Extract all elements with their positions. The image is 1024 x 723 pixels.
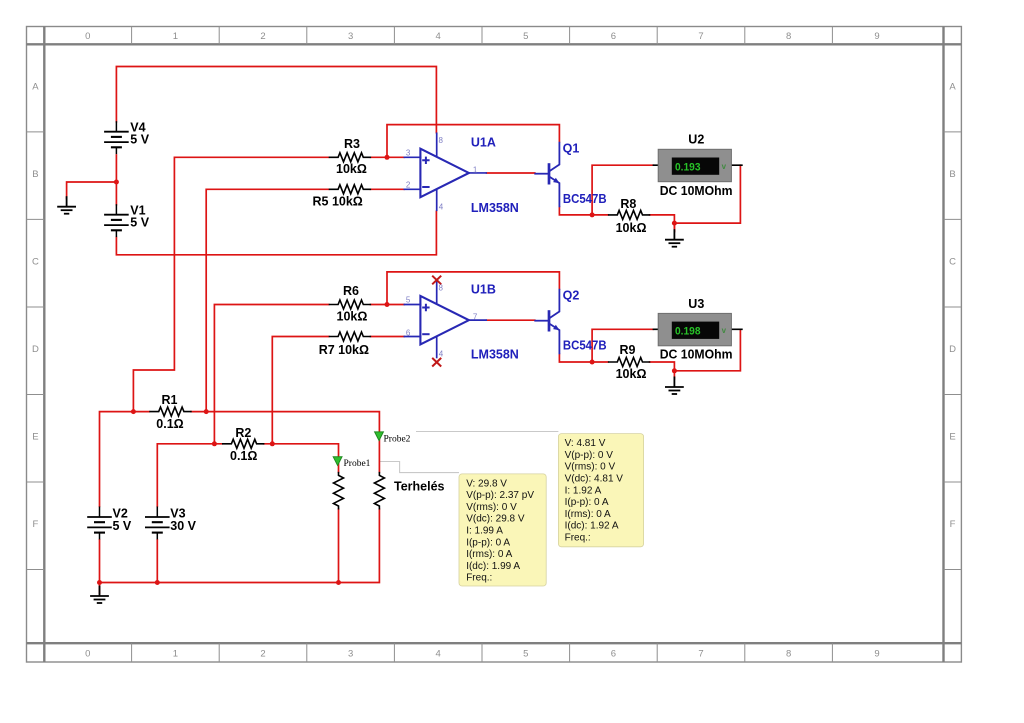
- svg-text:8: 8: [439, 136, 444, 145]
- svg-text:3: 3: [406, 148, 411, 157]
- svg-text:R7 10kΩ: R7 10kΩ: [319, 343, 369, 357]
- svg-text:I(dc): 1.99 A: I(dc): 1.99 A: [466, 561, 520, 572]
- svg-text:6: 6: [406, 328, 411, 337]
- svg-text:Freq.:: Freq.:: [466, 573, 492, 584]
- svg-text:R1: R1: [162, 393, 178, 407]
- svg-text:F: F: [32, 519, 38, 530]
- svg-text:E: E: [949, 432, 955, 443]
- svg-text:0.198: 0.198: [675, 325, 701, 337]
- svg-text:V(p-p): 0 V: V(p-p): 0 V: [565, 450, 614, 461]
- svg-text:0: 0: [85, 649, 90, 660]
- svg-text:U1B: U1B: [471, 282, 496, 296]
- svg-text:0: 0: [85, 31, 90, 42]
- svg-text:1: 1: [173, 649, 178, 660]
- svg-text:B: B: [949, 169, 955, 180]
- svg-text:V(rms): 0 V: V(rms): 0 V: [466, 502, 517, 513]
- svg-text:10kΩ: 10kΩ: [616, 367, 647, 381]
- svg-text:Q1: Q1: [563, 142, 580, 156]
- svg-text:U1A: U1A: [471, 135, 496, 149]
- svg-text:4: 4: [439, 203, 444, 212]
- svg-text:4: 4: [436, 31, 441, 42]
- svg-text:6: 6: [611, 649, 616, 660]
- svg-text:A: A: [32, 82, 39, 93]
- svg-text:I: 1.99 A: I: 1.99 A: [466, 526, 503, 537]
- svg-text:C: C: [32, 257, 39, 268]
- svg-text:5 V: 5 V: [130, 216, 149, 230]
- svg-text:0.1Ω: 0.1Ω: [156, 417, 183, 431]
- svg-text:V(p-p): 2.37 pV: V(p-p): 2.37 pV: [466, 490, 534, 501]
- svg-text:5: 5: [523, 649, 528, 660]
- svg-text:R5 10kΩ: R5 10kΩ: [313, 194, 363, 208]
- svg-text:0.1Ω: 0.1Ω: [230, 449, 257, 463]
- svg-text:v: v: [722, 162, 727, 171]
- svg-text:R9: R9: [620, 343, 636, 357]
- svg-text:Probe2: Probe2: [384, 434, 411, 444]
- svg-text:C: C: [949, 257, 956, 268]
- svg-text:R6: R6: [343, 284, 359, 298]
- svg-text:7: 7: [698, 649, 703, 660]
- svg-text:8: 8: [786, 649, 791, 660]
- svg-text:v: v: [722, 326, 727, 335]
- svg-text:Freq.:: Freq.:: [565, 533, 591, 544]
- svg-text:1: 1: [173, 31, 178, 42]
- svg-text:3: 3: [348, 31, 353, 42]
- svg-text:5: 5: [523, 31, 528, 42]
- svg-text:U3: U3: [688, 297, 704, 311]
- svg-text:F: F: [950, 519, 956, 530]
- svg-text:R8: R8: [620, 197, 636, 211]
- svg-text:V(dc): 4.81 V: V(dc): 4.81 V: [565, 474, 624, 485]
- svg-text:Probe1: Probe1: [344, 459, 371, 469]
- svg-text:DC 10MOhm: DC 10MOhm: [660, 348, 733, 362]
- svg-text:1: 1: [473, 165, 478, 174]
- svg-text:3: 3: [348, 649, 353, 660]
- svg-text:8: 8: [439, 283, 444, 292]
- svg-text:A: A: [949, 82, 956, 93]
- svg-text:7: 7: [698, 31, 703, 42]
- svg-text:0.193: 0.193: [675, 161, 701, 173]
- svg-text:10kΩ: 10kΩ: [336, 162, 367, 176]
- svg-text:5 V: 5 V: [130, 132, 149, 146]
- svg-text:Q2: Q2: [563, 289, 580, 303]
- svg-text:B: B: [32, 169, 38, 180]
- svg-text:9: 9: [874, 649, 879, 660]
- svg-text:I: 1.92 A: I: 1.92 A: [565, 485, 602, 496]
- svg-text:V(rms): 0 V: V(rms): 0 V: [565, 462, 616, 473]
- svg-text:DC 10MOhm: DC 10MOhm: [660, 184, 733, 198]
- svg-text:E: E: [32, 432, 38, 443]
- svg-text:2: 2: [260, 649, 265, 660]
- svg-text:I(rms): 0 A: I(rms): 0 A: [565, 509, 611, 520]
- svg-text:I(rms): 0 A: I(rms): 0 A: [466, 549, 512, 560]
- svg-text:V: 29.8 V: V: 29.8 V: [466, 478, 507, 489]
- svg-text:30 V: 30 V: [170, 519, 196, 533]
- svg-text:8: 8: [786, 31, 791, 42]
- svg-text:D: D: [949, 344, 956, 355]
- svg-text:V: 4.81 V: V: 4.81 V: [565, 438, 606, 449]
- svg-text:7: 7: [473, 312, 478, 321]
- svg-text:Terhelés: Terhelés: [394, 480, 445, 494]
- svg-text:10kΩ: 10kΩ: [616, 221, 647, 235]
- svg-text:5: 5: [406, 296, 411, 305]
- svg-text:BC547B: BC547B: [563, 192, 607, 206]
- svg-text:I(p-p): 0 A: I(p-p): 0 A: [565, 497, 609, 508]
- svg-text:LM358N: LM358N: [471, 201, 519, 215]
- svg-text:I(p-p): 0 A: I(p-p): 0 A: [466, 537, 510, 548]
- svg-text:9: 9: [874, 31, 879, 42]
- svg-text:LM358N: LM358N: [471, 348, 519, 362]
- svg-text:U2: U2: [688, 133, 704, 147]
- svg-text:6: 6: [611, 31, 616, 42]
- svg-text:10kΩ: 10kΩ: [337, 310, 368, 324]
- svg-text:I(dc): 1.92 A: I(dc): 1.92 A: [565, 521, 619, 532]
- svg-text:4: 4: [439, 349, 444, 358]
- svg-text:2: 2: [406, 180, 411, 189]
- svg-text:BC547B: BC547B: [563, 339, 607, 353]
- svg-text:V(dc): 29.8 V: V(dc): 29.8 V: [466, 514, 525, 525]
- svg-text:R2: R2: [235, 426, 251, 440]
- svg-text:R3: R3: [344, 137, 360, 151]
- svg-text:2: 2: [260, 31, 265, 42]
- svg-text:5 V: 5 V: [113, 519, 132, 533]
- svg-text:4: 4: [436, 649, 441, 660]
- svg-text:D: D: [32, 344, 39, 355]
